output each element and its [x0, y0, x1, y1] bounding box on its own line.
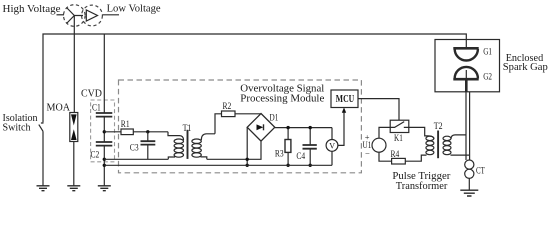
- node R3 top: [286, 126, 289, 129]
- svg-text:G1: G1: [483, 47, 492, 57]
- resistor R4: [392, 158, 406, 164]
- svg-text:MCU: MCU: [336, 94, 354, 105]
- wire K1 to T2: [409, 127, 434, 139]
- svg-text:Processing Module: Processing Module: [240, 92, 324, 104]
- svg-text:MOA: MOA: [47, 101, 71, 113]
- svg-text:Transformer: Transformer: [396, 180, 448, 192]
- ground under CVD: [98, 186, 111, 191]
- module dashed box: [119, 80, 362, 173]
- wire CT to ground: [468, 178, 470, 190]
- transformer T2 core: [437, 131, 439, 159]
- transformer T1 core: [187, 130, 189, 159]
- wire C4 bottom stem: [309, 149, 311, 166]
- transformer T1 primary winding: [168, 132, 184, 140]
- svg-text:K1: K1: [394, 134, 403, 144]
- wire node to R1: [104, 131, 121, 133]
- source U1: [372, 138, 386, 152]
- transducer circle left (dashed): [64, 5, 86, 27]
- wire voltmeter to MCU with arrow: [338, 113, 344, 146]
- spark gap box: [435, 40, 500, 92]
- node C4 on rail: [309, 164, 312, 167]
- varistor MOA box: [70, 113, 78, 142]
- symbol inside left circle: [67, 8, 84, 24]
- wire low voltage lead: [102, 14, 119, 16]
- wire circle1 down to MOA: [73, 16, 75, 113]
- transformer T1 secondary winding: [192, 139, 201, 143]
- svg-text:−: −: [365, 148, 370, 158]
- svg-text:C1: C1: [92, 104, 101, 114]
- node C3 top: [146, 130, 149, 133]
- MCU box: [331, 90, 358, 108]
- varistor MOA arrows: [71, 114, 77, 140]
- node C2 bottom rail A: [103, 158, 106, 161]
- capacitor C2: [96, 142, 113, 146]
- wire MOA to ground: [73, 142, 75, 186]
- wire switch to ground: [42, 131, 44, 185]
- diode inside bridge: [257, 124, 264, 130]
- node bridge on rail: [246, 164, 249, 167]
- node C1-C2 midpoint: [103, 130, 106, 133]
- wire U1 top to K1: [379, 127, 390, 138]
- wire C4 top stem: [309, 128, 311, 145]
- ground under isolation switch: [37, 186, 50, 191]
- node C4 top: [309, 126, 312, 129]
- wire rail to C1: [103, 34, 105, 113]
- svg-text:C3: C3: [130, 144, 139, 154]
- node R3 on rail: [286, 164, 289, 167]
- svg-text:D1: D1: [270, 114, 279, 124]
- svg-text:C4: C4: [296, 152, 305, 162]
- ground under MOA: [67, 186, 80, 191]
- trigger pin through G2: [465, 70, 467, 79]
- wire primary bottom: [104, 158, 168, 160]
- wire MCU to K1: [358, 99, 399, 121]
- relay K1 contact: [390, 122, 409, 128]
- wire U1 bottom to R4: [379, 152, 392, 161]
- electrode G2: [455, 67, 478, 79]
- wire G2 stem: [465, 79, 468, 92]
- amplifier circle right (dashed): [82, 5, 103, 26]
- isolation switch blade: [39, 123, 44, 131]
- svg-text:C2: C2: [91, 151, 100, 161]
- wire T2 secondary bottom: [451, 154, 470, 156]
- CVD dashed box: [91, 100, 115, 162]
- wire R1 to T1: [133, 131, 168, 133]
- svg-text:Low Voltage: Low Voltage: [107, 3, 161, 15]
- node C2 bottom rail B: [103, 164, 106, 167]
- wire secondary bottom to bridge: [207, 158, 247, 160]
- ground under CT: [460, 190, 478, 196]
- capacitor C4: [303, 145, 317, 149]
- relay K1 box: [390, 120, 409, 132]
- capacitor C3: [141, 141, 156, 144]
- wire R2 to bridge top: [235, 113, 261, 115]
- svg-text:R2: R2: [223, 102, 232, 112]
- wire ground rail: [104, 164, 332, 166]
- wire C3 top stem: [147, 132, 149, 141]
- svg-text:High Voltage: High Voltage: [3, 3, 61, 15]
- wire R4 to T2: [405, 155, 426, 161]
- wire bridge left corner down: [246, 127, 248, 165]
- wire to voltmeter: [331, 128, 333, 140]
- rectifier bridge D1 diamond: [247, 114, 275, 142]
- resistor R1: [121, 129, 133, 135]
- wire C3 bottom stem: [147, 145, 149, 160]
- electrode G1: [453, 47, 478, 50]
- node bridge bottom junction: [246, 158, 249, 161]
- wire T2 secondary top: [451, 135, 466, 139]
- wire R3 top stem: [287, 128, 289, 140]
- wire bridge bottom corner L: [247, 141, 261, 159]
- svg-text:R3: R3: [275, 149, 284, 159]
- triangle inside right circle: [86, 10, 97, 21]
- resistor R2: [222, 111, 236, 117]
- wire bridge output top: [275, 127, 332, 129]
- svg-text:CT: CT: [476, 167, 485, 177]
- voltmeter V: [326, 140, 338, 152]
- transformer T2 secondary winding: [443, 136, 451, 140]
- svg-text:Switch: Switch: [3, 122, 31, 134]
- current transformer CT: [465, 160, 474, 169]
- wire secondary top to R2: [215, 114, 222, 134]
- transformer T2 primary winding: [426, 136, 434, 140]
- wire double line to CT: [466, 92, 470, 160]
- resistor R3: [285, 140, 291, 153]
- wire high voltage lead: [57, 14, 65, 16]
- wire R3 bottom stem: [287, 152, 289, 165]
- wire C2 to ground: [103, 146, 105, 186]
- svg-text:CVD: CVD: [81, 88, 102, 100]
- wire voltmeter bottom: [331, 151, 333, 165]
- capacitor C1: [96, 113, 113, 117]
- svg-text:Spark Gap: Spark Gap: [503, 61, 548, 73]
- wire C1 to node: [103, 117, 105, 142]
- wire top rail: [43, 34, 466, 122]
- svg-text:G2: G2: [483, 73, 492, 83]
- svg-text:V: V: [329, 142, 335, 151]
